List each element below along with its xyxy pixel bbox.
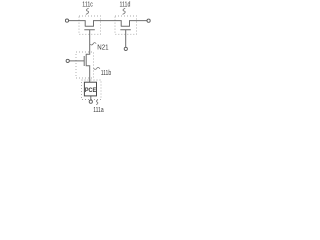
svg-text:111d: 111d: [120, 1, 131, 9]
svg-text:111a: 111a: [93, 106, 104, 114]
svg-text:111b: 111b: [101, 69, 112, 77]
svg-text:PCE: PCE: [85, 87, 96, 93]
svg-text:111c: 111c: [82, 1, 93, 9]
svg-text:N21: N21: [97, 44, 109, 51]
